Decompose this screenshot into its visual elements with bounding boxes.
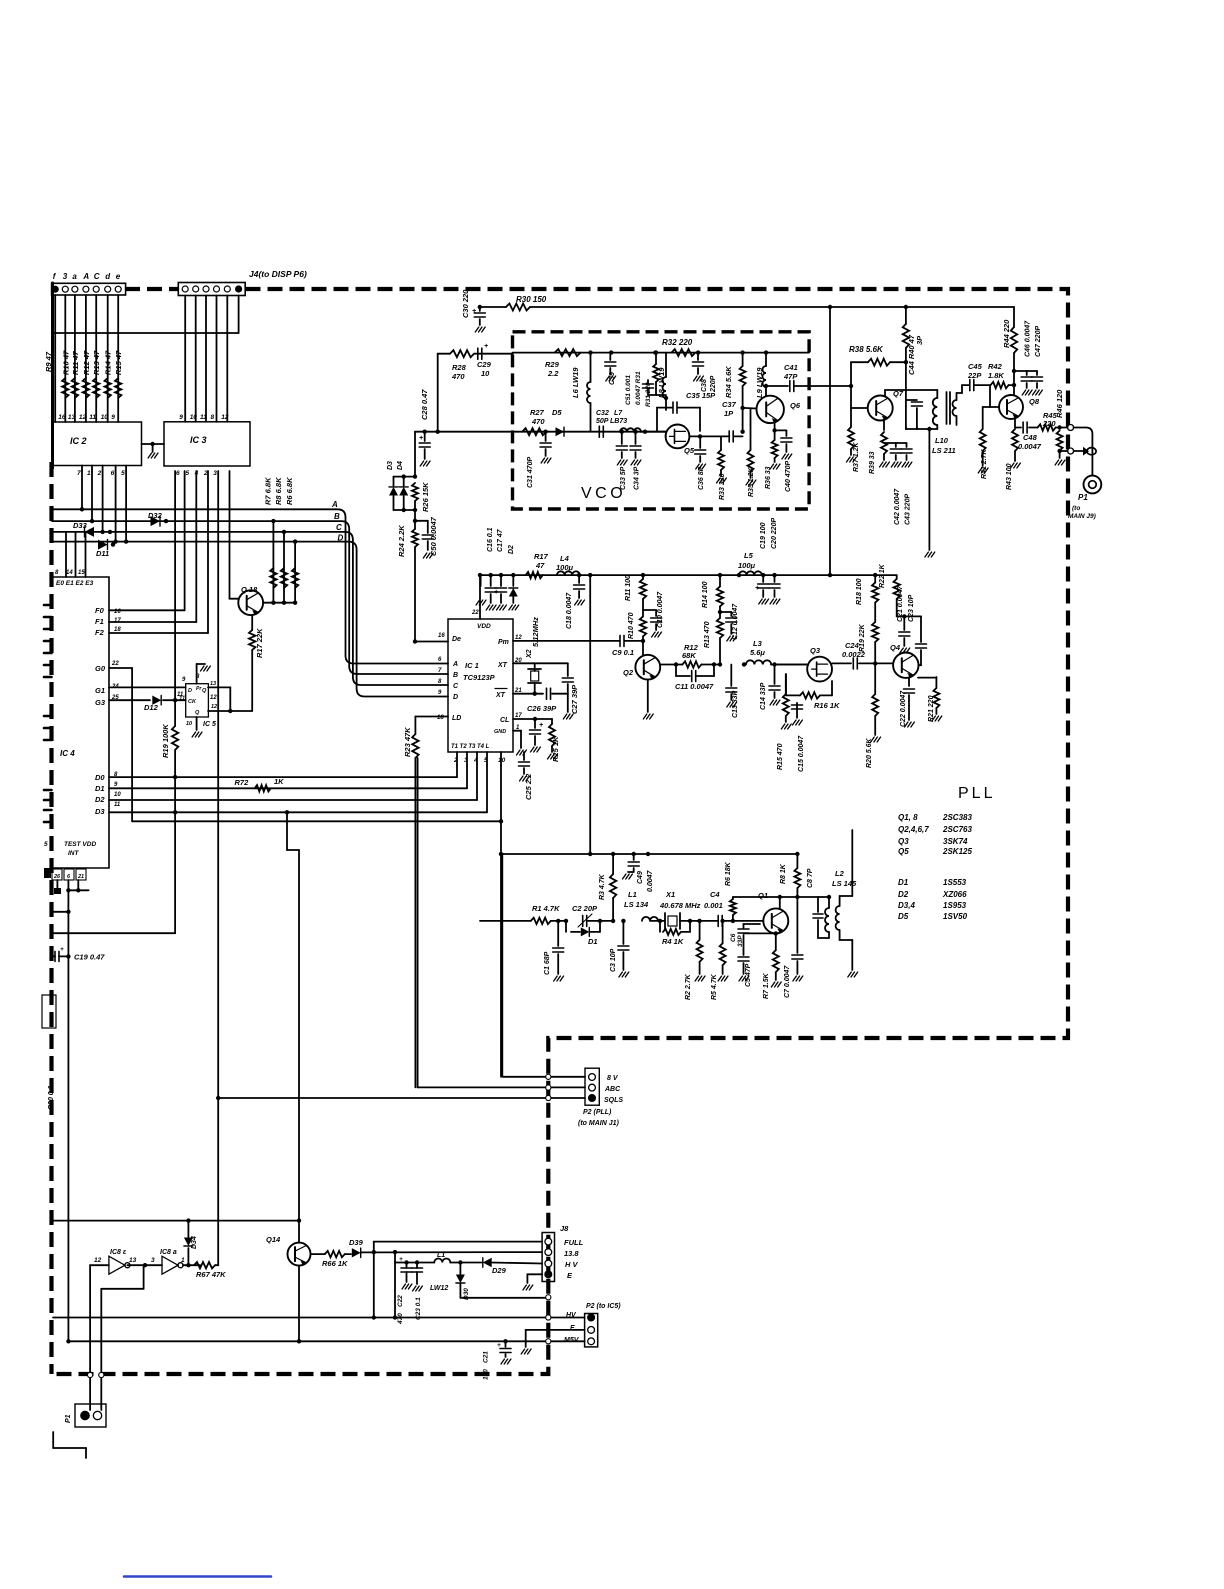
- svg-text:Q14: Q14: [266, 1235, 281, 1244]
- svg-text:47P: 47P: [783, 372, 798, 381]
- svg-text:2.2: 2.2: [547, 369, 559, 378]
- svg-text:IC 2: IC 2: [70, 436, 87, 446]
- svg-text:C: C: [453, 683, 459, 690]
- svg-text:D11: D11: [96, 549, 109, 558]
- svg-text:e: e: [116, 272, 121, 281]
- svg-text:11: 11: [200, 414, 207, 421]
- svg-text:De: De: [452, 636, 461, 643]
- svg-text:C11 0.0047: C11 0.0047: [675, 682, 714, 691]
- svg-text:3P: 3P: [915, 335, 924, 345]
- svg-text:A: A: [452, 661, 458, 668]
- svg-text:C10 0.0047: C10 0.0047: [657, 591, 664, 628]
- svg-text:IC 1: IC 1: [465, 661, 479, 670]
- svg-text:1SV50: 1SV50: [943, 912, 968, 921]
- svg-text:C5 47P: C5 47P: [745, 963, 752, 987]
- svg-text:T1 T2 T3 T4 L: T1 T2 T3 T4 L: [451, 744, 490, 750]
- svg-text:2: 2: [97, 470, 102, 477]
- svg-text:R10 47: R10 47: [61, 350, 70, 375]
- svg-text:R8 6.8K: R8 6.8K: [274, 477, 283, 505]
- svg-text:0.0047: 0.0047: [1018, 442, 1042, 451]
- svg-text:68K: 68K: [682, 651, 696, 660]
- svg-text:R26 15K: R26 15K: [421, 482, 430, 512]
- svg-text:C46 0.0047: C46 0.0047: [1025, 320, 1032, 357]
- svg-text:9: 9: [182, 677, 186, 683]
- svg-text:7: 7: [77, 470, 81, 477]
- svg-text:R6 6.8K: R6 6.8K: [285, 477, 294, 505]
- svg-text:+: +: [494, 589, 498, 596]
- svg-text:6: 6: [111, 470, 115, 477]
- svg-text:R72: R72: [235, 778, 250, 787]
- svg-text:A: A: [331, 500, 338, 509]
- svg-text:R34 5.6K: R34 5.6K: [724, 366, 733, 398]
- svg-text:Pm: Pm: [498, 639, 509, 646]
- svg-text:C35 15P: C35 15P: [686, 391, 716, 400]
- svg-text:1: 1: [87, 470, 91, 477]
- svg-text:D1: D1: [898, 878, 909, 887]
- svg-text:GND: GND: [494, 729, 506, 735]
- svg-text:C14 33P: C14 33P: [760, 682, 767, 710]
- svg-text:L1: L1: [437, 1252, 445, 1259]
- svg-text:Q2,4,6,7: Q2,4,6,7: [898, 825, 929, 834]
- svg-text:C2 20P: C2 20P: [572, 904, 598, 913]
- svg-text:2SC383: 2SC383: [942, 813, 972, 822]
- svg-text:L2: L2: [835, 869, 845, 878]
- svg-text:C9 0.1: C9 0.1: [612, 648, 634, 657]
- svg-text:C50 0.0047: C50 0.0047: [429, 516, 438, 556]
- svg-text:R4 1K: R4 1K: [662, 937, 684, 946]
- svg-text:18: 18: [114, 627, 121, 633]
- svg-text:R41 2.7K: R41 2.7K: [981, 448, 988, 479]
- svg-text:10: 10: [101, 414, 109, 421]
- svg-text:TEST VDD: TEST VDD: [64, 841, 96, 848]
- svg-text:PLL: PLL: [958, 785, 995, 802]
- svg-text:17: 17: [114, 618, 121, 624]
- svg-text:D39: D39: [349, 1238, 364, 1247]
- svg-text:12: 12: [79, 414, 87, 421]
- svg-text:C23 10P: C23 10P: [908, 594, 915, 622]
- svg-text:C20 0.1: C20 0.1: [48, 1085, 55, 1110]
- svg-text:47: 47: [535, 561, 545, 570]
- svg-text:D4: D4: [397, 461, 404, 470]
- svg-text:C19 100: C19 100: [760, 522, 767, 549]
- svg-text:R14 47: R14 47: [104, 350, 113, 375]
- svg-text:+: +: [539, 722, 543, 729]
- svg-text:13.8: 13.8: [564, 1249, 579, 1258]
- svg-text:C26 39P: C26 39P: [527, 704, 557, 713]
- svg-text:5: 5: [121, 470, 125, 477]
- svg-text:100: 100: [483, 1369, 490, 1380]
- svg-text:1P: 1P: [724, 409, 734, 418]
- svg-text:13: 13: [68, 414, 76, 421]
- svg-text:B: B: [453, 672, 458, 679]
- svg-text:L1: L1: [628, 890, 637, 899]
- svg-text:0.001: 0.001: [704, 901, 723, 910]
- svg-text:9: 9: [438, 690, 442, 696]
- svg-text:16: 16: [114, 609, 121, 615]
- svg-text:D2: D2: [508, 545, 515, 554]
- svg-text:C37: C37: [722, 400, 737, 409]
- svg-text:D29: D29: [492, 1266, 507, 1275]
- svg-text:A: A: [82, 272, 89, 281]
- svg-text:IC 4: IC 4: [60, 749, 75, 758]
- svg-text:C: C: [94, 272, 100, 281]
- svg-text:R28: R28: [452, 363, 467, 372]
- svg-text:F2: F2: [95, 628, 105, 637]
- svg-text:R11 47: R11 47: [71, 351, 80, 375]
- svg-text:IC8 a: IC8 a: [160, 1249, 177, 1256]
- svg-text:D5: D5: [552, 408, 562, 417]
- svg-text:+: +: [472, 308, 476, 315]
- svg-text:VDD: VDD: [477, 623, 491, 630]
- svg-text:C17 47: C17 47: [497, 528, 504, 552]
- svg-text:5.6μ: 5.6μ: [750, 648, 765, 657]
- svg-text:9: 9: [111, 414, 115, 421]
- svg-text:0.0047 R31: 0.0047 R31: [635, 371, 642, 405]
- svg-text:L8 LW19: L8 LW19: [657, 367, 666, 398]
- svg-text:XT: XT: [497, 662, 508, 669]
- svg-text:C31 470P: C31 470P: [527, 457, 534, 488]
- svg-text:Q1, 8: Q1, 8: [898, 813, 918, 822]
- svg-text:470: 470: [531, 417, 545, 426]
- svg-text:+: +: [60, 946, 64, 953]
- svg-text:R23 47K: R23 47K: [403, 727, 412, 757]
- svg-text:2SC763: 2SC763: [942, 825, 972, 834]
- svg-text:D5: D5: [898, 912, 909, 921]
- svg-text:R12 47: R12 47: [82, 350, 91, 375]
- svg-text:+: +: [419, 435, 423, 442]
- svg-text:1S953: 1S953: [943, 901, 967, 910]
- svg-text:33P: 33P: [737, 935, 744, 947]
- svg-text:C42 0.0047: C42 0.0047: [894, 488, 901, 525]
- svg-text:1S553: 1S553: [943, 878, 967, 887]
- svg-text:L3: L3: [753, 639, 763, 648]
- svg-text:R43 100: R43 100: [1006, 463, 1013, 490]
- svg-text:XZ066: XZ066: [942, 890, 967, 899]
- svg-text:R42: R42: [988, 362, 1003, 371]
- svg-text:(to MAIN J1): (to MAIN J1): [578, 1120, 620, 1127]
- svg-text:D33: D33: [73, 521, 88, 530]
- svg-text:L6 LW19: L6 LW19: [571, 367, 580, 398]
- svg-text:C18 0.0047: C18 0.0047: [566, 592, 573, 629]
- svg-text:a: a: [72, 272, 77, 281]
- svg-text:C48: C48: [1023, 433, 1038, 442]
- svg-text:Q5: Q5: [898, 847, 909, 856]
- svg-text:470: 470: [451, 372, 465, 381]
- svg-text:8: 8: [211, 414, 215, 421]
- svg-text:Q3: Q3: [898, 837, 909, 846]
- svg-text:C43 220P: C43 220P: [905, 494, 912, 525]
- svg-text:SQLS: SQLS: [604, 1097, 623, 1104]
- svg-text:C15 0.0047: C15 0.0047: [798, 735, 805, 772]
- svg-text:f: f: [53, 272, 57, 281]
- svg-text:3: 3: [151, 1257, 155, 1264]
- svg-text:R20 5.6K: R20 5.6K: [866, 737, 873, 768]
- svg-text:10: 10: [481, 369, 490, 378]
- svg-text:R25 1K: R25 1K: [551, 736, 560, 762]
- svg-text:R18 100: R18 100: [856, 578, 863, 605]
- svg-text:13: 13: [210, 681, 216, 687]
- svg-text:+: +: [399, 1256, 403, 1263]
- svg-text:R29: R29: [545, 360, 560, 369]
- svg-text:D34: D34: [191, 1236, 198, 1249]
- svg-text:10: 10: [186, 721, 192, 727]
- svg-text:C47 220P: C47 220P: [1035, 326, 1042, 357]
- svg-text:C51 0.001: C51 0.001: [625, 375, 632, 405]
- svg-text:1.8K: 1.8K: [988, 371, 1004, 380]
- svg-text:R19 22K: R19 22K: [859, 623, 866, 652]
- svg-text:C25 2.2: C25 2.2: [524, 773, 533, 800]
- svg-text:22P: 22P: [967, 371, 982, 380]
- svg-text:B: B: [334, 512, 340, 521]
- svg-text:3: 3: [63, 272, 68, 281]
- svg-text:E: E: [570, 1325, 575, 1332]
- svg-text:LB73: LB73: [610, 418, 627, 425]
- svg-text:D3,4: D3,4: [898, 901, 915, 910]
- svg-text:J8: J8: [560, 1224, 569, 1233]
- svg-text:R2 2.7K: R2 2.7K: [685, 973, 692, 1000]
- svg-text:15: 15: [78, 570, 85, 576]
- svg-text:2SK125: 2SK125: [942, 847, 972, 856]
- svg-text:R21 220: R21 220: [928, 695, 935, 722]
- svg-text:0.0047: 0.0047: [647, 869, 654, 892]
- svg-text:R36 33: R36 33: [765, 466, 772, 489]
- svg-text:Q: Q: [202, 688, 207, 694]
- svg-text:C1 68P: C1 68P: [544, 951, 551, 975]
- svg-text:L7: L7: [614, 410, 623, 417]
- svg-text:C27 39P: C27 39P: [570, 684, 579, 714]
- svg-text:C13 33P: C13 33P: [732, 690, 739, 718]
- svg-text:C8 7P: C8 7P: [807, 868, 814, 888]
- svg-text:Q6: Q6: [790, 401, 801, 410]
- svg-text:50P: 50P: [596, 418, 609, 425]
- svg-text:G0: G0: [95, 664, 106, 673]
- svg-text:8: 8: [55, 570, 59, 576]
- svg-text:C39: C39: [609, 372, 616, 385]
- svg-text:Q1: Q1: [758, 891, 768, 900]
- svg-text:D1: D1: [95, 784, 105, 793]
- svg-text:VCO: VCO: [581, 485, 626, 502]
- svg-text:12: 12: [94, 1257, 102, 1264]
- svg-text:X1: X1: [665, 890, 675, 899]
- svg-text:5: 5: [186, 470, 190, 477]
- svg-text:C16 0.1: C16 0.1: [487, 527, 494, 552]
- svg-text:R19 100K: R19 100K: [161, 724, 170, 758]
- svg-text:CK: CK: [188, 699, 197, 705]
- svg-text:L5: L5: [744, 551, 754, 560]
- svg-text:R9 47: R9 47: [44, 351, 53, 372]
- svg-text:R16 1K: R16 1K: [814, 701, 840, 710]
- svg-text:D0: D0: [95, 773, 105, 782]
- svg-text:1K: 1K: [274, 777, 284, 786]
- svg-text:Q: Q: [195, 710, 200, 716]
- svg-text:470: 470: [397, 1313, 404, 1325]
- svg-text:R66 1K: R66 1K: [322, 1259, 348, 1268]
- svg-text:C41: C41: [784, 363, 798, 372]
- svg-text:6: 6: [67, 874, 71, 880]
- svg-text:XT: XT: [495, 692, 506, 699]
- svg-text:X2: X2: [526, 649, 533, 659]
- svg-text:Q 18: Q 18: [241, 585, 258, 594]
- svg-text:10: 10: [114, 792, 121, 798]
- svg-text:C36 8P: C36 8P: [698, 466, 705, 490]
- svg-text:R17: R17: [534, 552, 549, 561]
- svg-text:16: 16: [438, 633, 445, 639]
- svg-text:R15 47: R15 47: [114, 350, 123, 375]
- svg-text:C22 0.0047: C22 0.0047: [900, 690, 907, 727]
- svg-text:R22 1K: R22 1K: [879, 563, 886, 588]
- svg-text:F1: F1: [95, 617, 104, 626]
- svg-text:C34 3P: C34 3P: [634, 466, 641, 490]
- svg-text:C24: C24: [845, 641, 860, 650]
- svg-text:D2: D2: [95, 795, 105, 804]
- svg-text:H V: H V: [565, 1260, 579, 1269]
- svg-text:C40 470P: C40 470P: [785, 461, 792, 492]
- svg-text:CL: CL: [500, 717, 509, 724]
- svg-text:3SK74: 3SK74: [943, 837, 968, 846]
- svg-text:C28 0.47: C28 0.47: [420, 389, 429, 420]
- svg-text:C23 0.1: C23 0.1: [415, 1297, 422, 1320]
- svg-text:R46 120: R46 120: [1055, 389, 1064, 418]
- svg-text:Q8: Q8: [1029, 397, 1040, 406]
- svg-text:R14 100: R14 100: [702, 581, 709, 608]
- svg-text:11: 11: [89, 414, 96, 421]
- svg-text:R32 220: R32 220: [662, 338, 693, 347]
- svg-text:G1: G1: [95, 686, 105, 695]
- svg-text:C20 220P: C20 220P: [771, 518, 778, 549]
- svg-text:10: 10: [190, 414, 198, 421]
- svg-text:R7 6.8K: R7 6.8K: [263, 477, 272, 505]
- svg-text:100μ: 100μ: [738, 561, 756, 570]
- svg-text:13: 13: [129, 1257, 137, 1264]
- svg-text:21: 21: [77, 874, 84, 880]
- svg-text:P1: P1: [65, 1414, 72, 1423]
- svg-text:(to: (to: [1072, 505, 1080, 512]
- svg-text:R27: R27: [530, 408, 545, 417]
- svg-text:22: 22: [111, 661, 119, 667]
- svg-text:P2 (to IC5): P2 (to IC5): [586, 1303, 621, 1310]
- svg-text:D2: D2: [898, 890, 909, 899]
- svg-text:1: 1: [181, 1257, 185, 1264]
- svg-text:D32: D32: [148, 511, 163, 520]
- svg-text:L10: L10: [935, 436, 949, 445]
- svg-text:C12 0.0047: C12 0.0047: [732, 603, 739, 640]
- svg-text:D1: D1: [588, 937, 598, 946]
- svg-text:+: +: [484, 343, 488, 350]
- svg-text:Q4: Q4: [890, 643, 901, 652]
- svg-text:C6: C6: [730, 933, 737, 942]
- svg-text:ABC: ABC: [604, 1086, 621, 1093]
- svg-text:R10 470: R10 470: [628, 612, 635, 639]
- svg-text:R5 4.7K: R5 4.7K: [711, 973, 718, 1000]
- svg-text:D3: D3: [95, 807, 105, 816]
- svg-text:9: 9: [114, 782, 118, 788]
- svg-text:R15 470: R15 470: [777, 743, 784, 770]
- svg-text:11: 11: [114, 802, 121, 808]
- svg-text:C4: C4: [710, 890, 720, 899]
- svg-text:C29: C29: [477, 360, 492, 369]
- svg-text:12: 12: [210, 695, 217, 701]
- svg-text:Q5: Q5: [684, 446, 695, 455]
- svg-text:5: 5: [44, 841, 48, 848]
- svg-text:P1: P1: [1078, 493, 1088, 502]
- svg-text:LD: LD: [452, 715, 461, 722]
- svg-text:LW12: LW12: [430, 1285, 448, 1292]
- svg-text:MAIN J9): MAIN J9): [1068, 513, 1096, 520]
- svg-text:12: 12: [221, 414, 229, 421]
- svg-text:Q3: Q3: [810, 646, 821, 655]
- svg-text:R33 330: R33 330: [719, 473, 726, 500]
- svg-text:E: E: [567, 1271, 573, 1280]
- svg-text:D12: D12: [144, 703, 159, 712]
- svg-text:R13 470: R13 470: [704, 621, 711, 648]
- svg-text:6: 6: [438, 657, 442, 663]
- svg-text:8 V: 8 V: [607, 1075, 619, 1082]
- svg-text:P2 (PLL): P2 (PLL): [583, 1109, 612, 1116]
- svg-text:R11 100: R11 100: [625, 575, 632, 601]
- svg-text:C32: C32: [596, 410, 609, 417]
- svg-text:C45: C45: [968, 362, 983, 371]
- svg-text:LS 145: LS 145: [832, 879, 857, 888]
- svg-text:D: D: [188, 688, 192, 694]
- svg-text:F0: F0: [95, 606, 105, 615]
- svg-text:26: 26: [53, 874, 61, 880]
- svg-text:R30 150: R30 150: [516, 295, 547, 304]
- svg-text:100μ: 100μ: [556, 563, 574, 572]
- svg-text:C49: C49: [637, 871, 644, 884]
- svg-text:D: D: [453, 694, 458, 701]
- svg-text:C7 0.0047: C7 0.0047: [784, 965, 791, 998]
- svg-text:6: 6: [176, 470, 180, 477]
- svg-text:IC8 ε: IC8 ε: [110, 1249, 127, 1256]
- svg-text:D: D: [338, 534, 344, 543]
- svg-text:12: 12: [211, 704, 217, 710]
- svg-text:11: 11: [179, 696, 186, 702]
- svg-text:C3 10P: C3 10P: [610, 948, 617, 972]
- svg-text:R39 33: R39 33: [869, 451, 876, 474]
- svg-text:Q2: Q2: [623, 668, 634, 677]
- svg-text:L4: L4: [560, 554, 570, 563]
- svg-text:IC 3: IC 3: [190, 435, 207, 445]
- svg-text:E0 E1 E2 E3: E0 E1 E2 E3: [56, 580, 94, 587]
- svg-text:R3 4.7K: R3 4.7K: [599, 873, 606, 900]
- svg-text:R38 5.6K: R38 5.6K: [849, 345, 884, 354]
- svg-text:22: 22: [471, 610, 479, 616]
- svg-text:R67 47K: R67 47K: [196, 1270, 226, 1279]
- svg-text:C22: C22: [397, 1295, 404, 1307]
- svg-text:C: C: [336, 523, 342, 532]
- svg-text:R13 47: R13 47: [92, 350, 101, 375]
- svg-text:J4(to DISP P6): J4(to DISP P6): [249, 269, 307, 279]
- svg-text:IC 5: IC 5: [203, 721, 216, 728]
- svg-text:TC9123P: TC9123P: [463, 673, 496, 682]
- svg-text:R17 22K: R17 22K: [255, 628, 264, 658]
- svg-text:16: 16: [58, 414, 66, 421]
- svg-text:R1 4.7K: R1 4.7K: [532, 904, 560, 913]
- svg-text:C30 220: C30 220: [461, 289, 470, 318]
- svg-text:D3: D3: [387, 461, 394, 470]
- svg-text:INT: INT: [68, 850, 80, 857]
- svg-text:R44 220: R44 220: [1002, 319, 1011, 348]
- svg-text:R35 1.2K: R35 1.2K: [748, 466, 755, 497]
- svg-text:14: 14: [66, 570, 73, 576]
- svg-text:R7 1.5K: R7 1.5K: [763, 972, 770, 999]
- svg-text:C21: C21: [483, 1351, 490, 1363]
- svg-text:d: d: [105, 272, 111, 281]
- svg-text:R8 1K: R8 1K: [780, 863, 787, 884]
- svg-text:C19 0.47: C19 0.47: [74, 953, 105, 962]
- svg-text:40.678 MHz: 40.678 MHz: [659, 901, 701, 910]
- svg-text:LS 134: LS 134: [624, 900, 649, 909]
